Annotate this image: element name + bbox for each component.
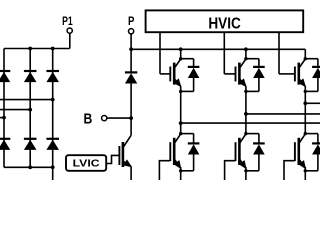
Q6 collector diagonal xyxy=(299,134,306,144)
Q5 channel bar xyxy=(238,138,241,165)
wire: P stem xyxy=(130,34,132,50)
node: top rail junction 3 xyxy=(51,47,55,51)
diode D9 (high-side freewheel) xyxy=(253,66,265,68)
diode D5 (bridge lower) xyxy=(24,138,37,140)
node: Q2 emitter join xyxy=(244,90,247,93)
wire: P DC+ rail xyxy=(131,48,305,50)
Q7 gate bar xyxy=(118,146,120,165)
Q6 emitter diagonal xyxy=(299,159,306,168)
node: P rail junction leg 2 xyxy=(244,47,248,51)
diode D1 (bridge upper) xyxy=(0,70,10,72)
wire: D9 bottom lead xyxy=(258,78,260,92)
Q4 emitter diagonal xyxy=(174,159,181,168)
Q2 channel bar xyxy=(238,63,241,85)
wire: LVIC gate hook leg 3 xyxy=(284,161,295,180)
node: Q3 emitter join xyxy=(304,90,307,93)
node: Q5 emitter join xyxy=(244,169,247,172)
node: AC tap 3 xyxy=(51,98,55,102)
diode D11 (low-side freewheel) xyxy=(188,142,200,144)
Q1 collector diagonal xyxy=(174,59,181,68)
Q3 gate bar xyxy=(294,67,296,82)
wire: Q5 emitter to bottom edge xyxy=(245,167,247,180)
wire: output W line xyxy=(305,102,320,104)
wire: bridge N stem to bottom edge xyxy=(52,167,54,180)
wire: gate lead to Q1 xyxy=(160,73,170,75)
wire: gate lead to Q3 xyxy=(279,73,295,75)
node: Q1 emitter join xyxy=(179,90,182,93)
Q5 gate bar xyxy=(235,142,237,161)
Q4 gate bar xyxy=(169,142,171,161)
diode D8 (high-side freewheel) xyxy=(188,66,200,68)
node: output V junction xyxy=(244,112,248,116)
wire: brake branch middle segment xyxy=(130,83,132,135)
wire: output U line xyxy=(181,122,320,124)
wire: HVIC gate feed leg 3 xyxy=(278,32,280,74)
wire: bridge leg 2 vertical xyxy=(29,49,31,168)
wire: D11 join to emitter xyxy=(181,170,194,172)
terminal P xyxy=(129,29,134,34)
Q7 emitter diagonal xyxy=(123,161,131,167)
Q2 gate bar xyxy=(235,67,237,82)
node: Q6 collector branch xyxy=(304,132,307,135)
node: Q3 collector branch xyxy=(304,57,307,60)
diode D7 (brake feedback) xyxy=(125,71,137,73)
svg-text:HVIC: HVIC xyxy=(208,16,241,33)
Q7 collector diagonal xyxy=(123,135,131,147)
diode D2 (bridge upper) xyxy=(24,70,37,72)
wire: branch to D9 anode-top xyxy=(246,58,259,60)
wire: branch to D13 top xyxy=(305,133,318,135)
node: Q1 collector branch xyxy=(179,57,182,60)
node: Q4 collector branch xyxy=(179,132,182,135)
Q2 emitter diagonal xyxy=(239,79,246,87)
node: bottom rail junction 2 xyxy=(28,165,32,169)
diode D6 (bridge lower) xyxy=(46,138,59,140)
Q3 emitter diagonal xyxy=(299,79,306,87)
wire: D12 bottom lead xyxy=(258,154,260,171)
node: AC tap 2 xyxy=(28,108,32,112)
node: B junction xyxy=(129,116,133,120)
Q1 emitter diagonal xyxy=(174,79,181,87)
wire: D12 top lead xyxy=(258,134,260,144)
diode D12 (low-side freewheel) xyxy=(253,142,265,144)
Q1 channel bar xyxy=(173,63,176,85)
Q2 collector diagonal xyxy=(239,59,246,68)
wire: HVIC gate feed leg 1 xyxy=(159,32,161,74)
wire: Q7 emitter to bottom edge xyxy=(130,167,132,181)
node: Q6 emitter join xyxy=(304,169,307,172)
wire: Q6 emitter to bottom edge xyxy=(304,167,306,180)
Q5 collector diagonal xyxy=(239,134,246,144)
wire: brake branch upper segment xyxy=(130,49,132,72)
wire: D13 bottom lead xyxy=(317,154,319,171)
node: output W junction xyxy=(303,101,307,105)
wire: AC input line phase 1 xyxy=(0,117,4,119)
svg-text:B: B xyxy=(84,111,93,127)
Q3 collector diagonal xyxy=(299,59,306,68)
wire: HVIC gate feed leg 2 xyxy=(223,32,225,74)
svg-text:P1: P1 xyxy=(62,16,73,28)
Q3 channel bar xyxy=(297,63,300,85)
wire: leg 2 midpoint vertical xyxy=(245,86,247,133)
wire: D9 top lead xyxy=(258,59,260,67)
wire: bridge top rail (P1 bus) xyxy=(4,48,70,50)
wire: D10 top lead xyxy=(317,59,319,67)
IC U2 LVIC box xyxy=(66,155,106,171)
wire: bridge leg 3 vertical xyxy=(52,49,54,168)
wire: branch to D10 anode-top xyxy=(305,58,318,60)
wire: D11 bottom lead xyxy=(193,154,195,171)
wire: branch to D11 top xyxy=(181,133,194,135)
wire: Q1 collector drop xyxy=(180,49,182,58)
terminal P1 xyxy=(67,28,72,33)
wire: bridge bottom rail (N bus) xyxy=(4,166,53,168)
Q4 channel bar xyxy=(173,138,176,165)
wire: D8 top lead xyxy=(193,59,195,67)
terminal B xyxy=(102,116,107,121)
node: output U junction xyxy=(179,121,183,125)
Q6 gate bar xyxy=(294,142,296,161)
wire: P1 stem xyxy=(69,33,71,48)
wire: D10 bottom lead xyxy=(317,78,319,92)
wire: D13 top lead xyxy=(317,134,319,144)
wire: D13 join to emitter xyxy=(305,170,318,172)
node: bottom rail junction 3 xyxy=(51,165,55,169)
Q5 emitter diagonal xyxy=(239,159,246,168)
wire: bridge leg 1 vertical xyxy=(3,49,5,168)
diode D3 (bridge upper) xyxy=(46,70,59,72)
svg-text:LVIC: LVIC xyxy=(73,159,101,170)
wire: Q4 emitter to bottom edge xyxy=(180,167,182,180)
wire: branch to D8 anode-top xyxy=(181,58,194,60)
Q1 gate bar xyxy=(169,67,171,82)
wire: B lead xyxy=(107,117,131,119)
diode D10 (high-side freewheel) xyxy=(312,66,320,68)
wire: D10 join to emitter xyxy=(305,90,318,92)
wire: LVIC output to Q7 gate xyxy=(106,155,119,163)
node: Q5 collector branch xyxy=(244,132,247,135)
node: top rail junction 2 xyxy=(28,47,32,51)
wire: D9 join to emitter xyxy=(246,90,259,92)
wire: LVIC gate hook leg 1 xyxy=(159,161,170,180)
node: AC tap 1 xyxy=(2,116,6,120)
wire: leg 3 midpoint vertical xyxy=(304,86,306,133)
diode D4 (bridge lower) xyxy=(0,138,10,140)
wire: Q3 collector drop xyxy=(304,49,306,58)
wire: D12 join to emitter xyxy=(246,170,259,172)
diode D13 (low-side freewheel) xyxy=(312,142,320,144)
node: Q2 collector branch xyxy=(244,57,247,60)
wire: AC input line phase 2 xyxy=(0,109,30,111)
node: P rail junction leg 1 xyxy=(179,47,183,51)
Q7 channel bar xyxy=(122,142,125,167)
wire: AC input line phase 3 xyxy=(0,99,53,101)
wire: gate lead to Q2 xyxy=(224,73,235,75)
wire: leg 1 midpoint vertical xyxy=(180,86,182,133)
node: Q4 emitter join xyxy=(179,169,182,172)
wire: D11 top lead xyxy=(193,134,195,144)
wire: Q2 collector drop xyxy=(245,49,247,58)
wire: branch to D12 top xyxy=(246,133,259,135)
Q4 collector diagonal xyxy=(174,134,181,144)
Q6 channel bar xyxy=(297,138,300,165)
wire: D8 bottom lead xyxy=(193,78,195,92)
node: P rail start xyxy=(129,47,133,51)
IC U1 HVIC box xyxy=(146,10,304,32)
svg-text:P: P xyxy=(128,16,135,28)
wire: D8 join to emitter xyxy=(181,90,194,92)
wire: LVIC gate hook leg 2 xyxy=(225,161,236,180)
wire: output V line xyxy=(246,113,320,115)
